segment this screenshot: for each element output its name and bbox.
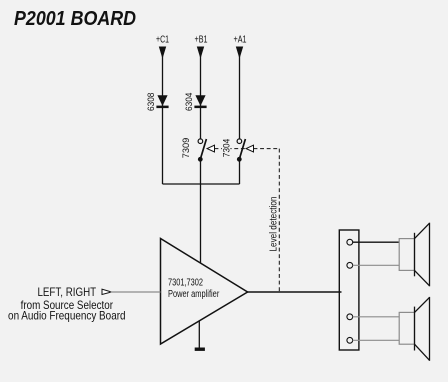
svg-text:on Audio Frequency Board: on Audio Frequency Board xyxy=(8,309,126,323)
svg-text:6308: 6308 xyxy=(146,93,157,112)
svg-text:+C1: +C1 xyxy=(156,34,169,45)
svg-text:7301,7302: 7301,7302 xyxy=(168,278,203,289)
svg-text:Power amplifier: Power amplifier xyxy=(168,289,220,300)
svg-text:LEFT, RIGHT: LEFT, RIGHT xyxy=(37,285,96,299)
svg-text:P2001 BOARD: P2001 BOARD xyxy=(14,8,136,30)
svg-text:7304: 7304 xyxy=(222,139,233,158)
svg-text:Level detection: Level detection xyxy=(268,197,279,252)
svg-text:+A1: +A1 xyxy=(234,34,247,45)
svg-text:7309: 7309 xyxy=(181,138,192,159)
svg-text:+B1: +B1 xyxy=(195,34,208,45)
svg-text:6304: 6304 xyxy=(184,93,195,112)
